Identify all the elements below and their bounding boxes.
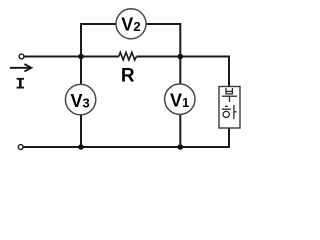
terminal: top-left input [19,54,24,59]
wire: V2 right lead and right riser down to node B [146,24,181,57]
voltmeter U3: circle body [65,84,95,114]
wire: middle horizontal right segment (resistor to load riser) [137,57,230,88]
load label glyph 하 (hieut+a) [222,105,237,119]
node A: junction dot top-left cross [78,54,84,60]
svg-text:R: R [121,65,135,86]
wire: V3 bottom lead [80,115,82,148]
wire: bottom horizontal and load bottom lead [24,127,230,147]
node D: junction dot bottom-right [178,144,184,150]
wire: left riser to top wire and V2 left lead [81,24,117,57]
load box body [219,87,240,129]
wire: V3 top lead [80,57,82,86]
voltmeter U1: circle body [165,84,195,114]
resistor R: zigzag body [119,52,137,60]
load label glyph 부 (bieup) [222,88,237,102]
wire: V1 top lead [179,57,181,85]
current arrow I [10,64,32,71]
wire: V1 bottom lead [179,114,181,147]
wire: middle horizontal left segment (terminal to resistor) [24,56,119,58]
terminal: bottom-left input [18,145,23,150]
voltmeter U2: circle body [116,9,146,39]
node B: junction dot top-right [178,54,184,60]
current label I [17,78,24,88]
node C: junction dot bottom-left [78,144,84,150]
